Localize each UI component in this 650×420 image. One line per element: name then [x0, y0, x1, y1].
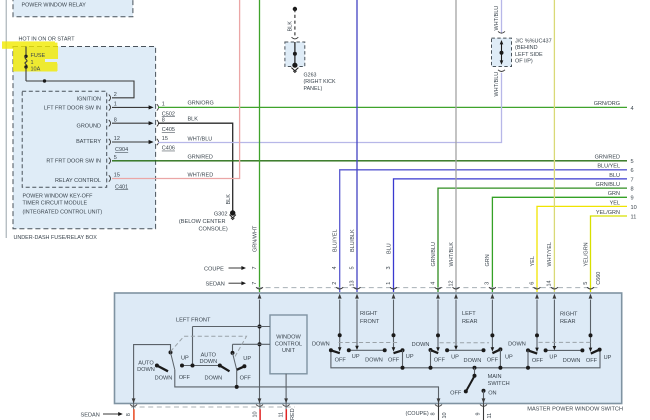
svg-text:POWER WINDOW RELAY: POWER WINDOW RELAY	[22, 3, 87, 9]
svg-text:UP: UP	[243, 356, 251, 362]
svg-text:SEDAN: SEDAN	[81, 413, 100, 419]
svg-text:WHT/YEL: WHT/YEL	[547, 242, 553, 266]
connector arcs C502 C405 C406	[157, 104, 159, 145]
svg-text:OFF: OFF	[450, 391, 462, 397]
svg-text:GROUND: GROUND	[77, 123, 101, 129]
svg-text:YEL/GRN: YEL/GRN	[596, 210, 620, 216]
connector dashed line below box	[131, 406, 295, 408]
svg-text:ON: ON	[488, 391, 496, 397]
svg-text:CONSOLE): CONSOLE)	[198, 226, 227, 232]
svg-text:BLU/BLK: BLU/BLK	[350, 229, 356, 252]
svg-text:12: 12	[114, 136, 120, 142]
wire fuse to ignition pin 2	[26, 79, 134, 98]
svg-text:GRN/ORG: GRN/ORG	[188, 100, 214, 106]
svg-text:7: 7	[252, 282, 258, 285]
wire row B to WCU	[233, 343, 271, 345]
switch S1 left front auto-down	[155, 350, 175, 371]
connector dashed line above switch box	[257, 287, 598, 289]
svg-text:LEFT FRONT: LEFT FRONT	[176, 317, 211, 323]
svg-text:GRN/RED: GRN/RED	[595, 155, 620, 161]
svg-text:REAR: REAR	[462, 319, 478, 325]
svg-text:BLK: BLK	[226, 194, 232, 205]
wire coupe pin 8	[438, 404, 440, 420]
svg-text:YEL/GRN: YEL/GRN	[583, 242, 589, 266]
svg-text:UP: UP	[549, 355, 557, 361]
wire GRN	[492, 197, 627, 292]
svg-text:GRN/BLU: GRN/BLU	[596, 182, 620, 188]
svg-text:DOWN: DOWN	[412, 342, 430, 348]
wire WHT/RED	[112, 0, 240, 179]
wire YEL/GRN	[591, 216, 628, 292]
wire GRN/RED	[112, 160, 627, 162]
wire BLU/YEL	[340, 170, 627, 292]
svg-text:TIMER CIRCUIT MODULE: TIMER CIRCUIT MODULE	[23, 201, 88, 207]
svg-text:(RIGHT KICK: (RIGHT KICK	[304, 79, 336, 85]
svg-text:10: 10	[253, 411, 259, 417]
mechanical link right front dashed	[339, 342, 398, 344]
svg-text:G263: G263	[304, 73, 317, 79]
svg-text:GRN/RED: GRN/RED	[188, 154, 213, 160]
wire riser row A to auto-down row	[192, 327, 194, 366]
svg-text:DOWN: DOWN	[199, 359, 217, 365]
svg-text:UP: UP	[352, 354, 360, 360]
svg-text:11: 11	[487, 413, 493, 419]
svg-text:10A: 10A	[31, 67, 41, 73]
wire BLU/BLK vertical	[356, 0, 358, 292]
svg-text:BLU/YEL: BLU/YEL	[597, 164, 620, 170]
svg-text:9: 9	[476, 412, 482, 415]
wire sedan pin8 riser	[134, 345, 171, 404]
svg-text:POWER WINDOW KEY-OFF: POWER WINDOW KEY-OFF	[23, 194, 94, 200]
svg-text:DOWN: DOWN	[137, 367, 155, 373]
svg-text:BLK: BLK	[188, 117, 199, 123]
svg-text:UP: UP	[451, 354, 459, 360]
svg-text:DOWN: DOWN	[508, 341, 526, 347]
wire GRN/ORG	[158, 106, 627, 108]
svg-text:FUSE: FUSE	[31, 53, 46, 59]
svg-text:OFF: OFF	[240, 375, 252, 381]
svg-text:BATTERY: BATTERY	[76, 139, 101, 145]
wire GRN/WHT inside box	[259, 300, 261, 404]
svg-text:(INTEGRATED CONTROL UNIT): (INTEGRATED CONTROL UNIT)	[23, 210, 103, 216]
svg-text:OFF: OFF	[335, 357, 347, 363]
labels left front switches	[137, 352, 251, 381]
junction row A	[258, 325, 262, 329]
svg-text:BLU: BLU	[386, 243, 392, 254]
svg-text:(COUPE): (COUPE)	[406, 411, 429, 417]
svg-text:1: 1	[386, 282, 392, 285]
window control unit U1	[270, 315, 307, 374]
wire auto-down row	[180, 364, 222, 368]
svg-text:GRN/BLU: GRN/BLU	[431, 242, 437, 266]
entry arrows at box top	[258, 294, 593, 299]
svg-text:C406: C406	[162, 146, 175, 152]
svg-text:MAIN: MAIN	[488, 374, 502, 380]
sedan label bottom	[81, 412, 133, 419]
svg-text:OF I/P): OF I/P)	[515, 59, 533, 65]
wire left bus	[175, 370, 439, 404]
svg-text:DOWN: DOWN	[365, 358, 383, 364]
svg-text:RIGHT: RIGHT	[560, 312, 578, 318]
switch right front up lever BLU/YEL	[329, 300, 342, 354]
wire WCU to sedan pin11	[285, 374, 287, 404]
wire BLK dashed to G263	[288, 7, 299, 39]
svg-text:4: 4	[332, 266, 338, 269]
svg-text:DOWN: DOWN	[563, 358, 581, 364]
svg-text:G302: G302	[214, 212, 228, 218]
svg-text:AUTO: AUTO	[201, 352, 217, 358]
svg-text:LFT FRT DOOR SW IN: LFT FRT DOOR SW IN	[44, 106, 101, 112]
svg-text:UP: UP	[505, 355, 513, 361]
svg-text:6: 6	[631, 168, 634, 174]
svg-text:MASTER POWER WINDOW SWITCH: MASTER POWER WINDOW SWITCH	[527, 406, 623, 412]
connector arcs at box top	[256, 287, 594, 289]
svg-text:11: 11	[631, 214, 637, 220]
wire right front feed bar BLU/BLK	[347, 300, 387, 353]
svg-text:8: 8	[631, 187, 634, 193]
svg-text:WHT/BLU: WHT/BLU	[494, 6, 500, 31]
wire RED sedan pin 10	[259, 404, 261, 410]
svg-text:6: 6	[529, 282, 535, 285]
svg-text:DOWN: DOWN	[464, 358, 482, 364]
svg-text:DOWN: DOWN	[155, 375, 173, 381]
svg-text:SWITCH: SWITCH	[488, 381, 510, 387]
junction connector J/C %%UC437	[492, 0, 552, 97]
svg-text:4: 4	[631, 106, 634, 112]
svg-text:(BELOW CENTER: (BELOW CENTER	[179, 219, 226, 225]
svg-text:FRONT: FRONT	[360, 319, 380, 325]
svg-text:BLU: BLU	[609, 173, 620, 179]
svg-text:OFF: OFF	[434, 358, 446, 364]
wire left rear feed bar WHT/BLK	[445, 300, 485, 353]
svg-text:7: 7	[631, 177, 634, 183]
svg-text:8: 8	[114, 117, 117, 123]
switch right front down lever BLU	[392, 300, 405, 370]
switch left rear up lever GRN/BLU	[429, 300, 441, 370]
svg-text:WHT/BLK: WHT/BLK	[449, 242, 455, 267]
switch S2 left front	[220, 344, 247, 389]
wire BLU	[394, 179, 628, 292]
svg-text:RT FRT DOOR SW IN: RT FRT DOOR SW IN	[46, 159, 101, 165]
svg-text:UNDER-DASH FUSE/RELAY BOX: UNDER-DASH FUSE/RELAY BOX	[14, 235, 98, 241]
wire right bus	[331, 350, 600, 368]
svg-text:BLU/YEL: BLU/YEL	[333, 229, 339, 252]
svg-text:UNIT: UNIT	[282, 348, 296, 354]
switch right rear down lever YEL/GRN	[589, 300, 602, 354]
svg-text:WHT/BLU: WHT/BLU	[188, 136, 213, 142]
svg-text:13: 13	[349, 280, 355, 286]
svg-text:(BEHIND: (BEHIND	[515, 45, 538, 51]
svg-text:12: 12	[448, 280, 454, 286]
wire RED sedan pin 8	[133, 404, 135, 410]
svg-text:BLK: BLK	[288, 21, 294, 32]
svg-text:7: 7	[252, 266, 258, 269]
mechanical link left rear dashed	[440, 342, 490, 344]
svg-text:RIGHT: RIGHT	[360, 311, 378, 317]
highlighter mark	[2, 41, 58, 71]
svg-text:5: 5	[583, 282, 589, 285]
pin numbers coupe/sedan rows	[252, 266, 602, 286]
module pin arcs and numbers	[109, 95, 111, 182]
svg-text:5: 5	[114, 155, 117, 161]
svg-text:YEL: YEL	[530, 256, 536, 266]
svg-text:14: 14	[547, 280, 553, 286]
svg-text:UP: UP	[604, 355, 612, 361]
exit arrows at box bottom	[132, 398, 486, 403]
ground G263	[285, 42, 336, 92]
svg-text:1: 1	[162, 102, 165, 108]
wire row A to WCU	[193, 326, 271, 328]
svg-text:9: 9	[631, 196, 634, 202]
wire WHT/BLK vertical	[455, 0, 457, 292]
svg-text:WHT/RED: WHT/RED	[188, 172, 214, 178]
svg-text:5: 5	[631, 159, 634, 165]
wire WHT/BLU horizontal	[158, 73, 502, 143]
integrated control unit module box	[22, 91, 107, 187]
ground G302	[179, 210, 236, 232]
wire RED sedan pin 11	[285, 404, 287, 410]
svg-text:GRN: GRN	[485, 254, 491, 266]
svg-text:YEL: YEL	[610, 200, 620, 206]
junction row B	[258, 342, 262, 346]
svg-text:OFF: OFF	[388, 357, 400, 363]
svg-text:1: 1	[31, 60, 34, 66]
svg-text:8: 8	[162, 117, 165, 123]
svg-text:OFF: OFF	[487, 358, 499, 364]
labels left rear	[412, 342, 513, 364]
wire name labels left	[188, 100, 214, 178]
svg-text:RED: RED	[290, 408, 296, 420]
svg-text:LEFT: LEFT	[462, 311, 476, 317]
svg-text:DOWN: DOWN	[312, 342, 330, 348]
svg-text:10: 10	[631, 205, 637, 211]
svg-text:5: 5	[349, 266, 355, 269]
svg-text:UP: UP	[406, 354, 414, 360]
mechanical link right rear dashed	[539, 341, 593, 343]
svg-text:COUPE: COUPE	[204, 266, 224, 272]
wire WHT/YEL vertical	[553, 0, 555, 292]
svg-text:PANEL): PANEL)	[304, 86, 323, 92]
svg-text:C660: C660	[596, 272, 602, 285]
wire coupe pin 9	[483, 404, 485, 420]
arrows module to connectors	[112, 105, 154, 144]
svg-text:C405: C405	[162, 127, 175, 133]
svg-text:10: 10	[442, 412, 448, 418]
svg-text:8: 8	[431, 412, 437, 415]
exit arcs below box	[130, 405, 487, 407]
svg-text:CONTROL: CONTROL	[275, 341, 302, 347]
labels right front	[312, 342, 414, 364]
svg-text:RELAY CONTROL: RELAY CONTROL	[55, 178, 101, 184]
wire BLK to G302	[158, 123, 233, 211]
svg-text:REAR: REAR	[560, 319, 576, 325]
svg-text:15: 15	[114, 173, 120, 179]
svg-text:1: 1	[114, 102, 117, 108]
svg-text:OFF: OFF	[179, 375, 191, 381]
svg-text:3: 3	[485, 282, 491, 285]
svg-text:8: 8	[126, 413, 132, 416]
svg-text:SEDAN: SEDAN	[206, 282, 225, 288]
main switch	[450, 366, 510, 404]
svg-text:DOWN: DOWN	[204, 375, 222, 381]
svg-text:GRN/ORG: GRN/ORG	[594, 101, 620, 107]
svg-text:IGNITION: IGNITION	[77, 96, 101, 102]
svg-text:LEFT SIDE: LEFT SIDE	[515, 52, 543, 58]
coupe row label	[204, 266, 246, 272]
fuse F1 10A	[24, 47, 45, 82]
wire YEL	[537, 206, 627, 292]
svg-text:WHT/BLU: WHT/BLU	[494, 72, 500, 97]
power window relay box	[13, 0, 133, 17]
svg-text:15: 15	[162, 136, 168, 142]
svg-text:2: 2	[114, 92, 117, 98]
under-dash fuse/relay box	[13, 47, 156, 229]
svg-text:11: 11	[279, 412, 285, 418]
wire GRN/WHT vertical	[259, 0, 261, 292]
svg-text:AUTO: AUTO	[138, 360, 154, 366]
frame border left	[5, 0, 7, 238]
svg-text:WINDOW: WINDOW	[276, 335, 301, 341]
svg-text:UP: UP	[181, 356, 189, 362]
svg-text:GRN: GRN	[608, 191, 620, 197]
svg-text:OFF: OFF	[532, 358, 544, 364]
svg-text:2: 2	[332, 282, 338, 285]
svg-text:4: 4	[430, 282, 436, 285]
svg-text:3: 3	[386, 266, 392, 269]
wire GRN/BLU	[438, 188, 627, 292]
switch left rear down lever GRN	[490, 300, 502, 370]
mechanical link left front dashed	[171, 336, 247, 356]
labels right rear	[508, 341, 612, 364]
svg-text:OFF: OFF	[586, 358, 598, 364]
master power window switch box	[115, 293, 622, 404]
sedan row label	[206, 281, 247, 287]
wire right rear feed bar WHT/YEL	[544, 300, 585, 353]
svg-text:GRN/WHT: GRN/WHT	[252, 225, 258, 252]
svg-text:J/C %%UC437: J/C %%UC437	[515, 38, 552, 44]
switch right rear up lever YEL	[526, 300, 539, 370]
svg-text:C904: C904	[115, 147, 128, 153]
svg-text:C401: C401	[115, 184, 128, 190]
